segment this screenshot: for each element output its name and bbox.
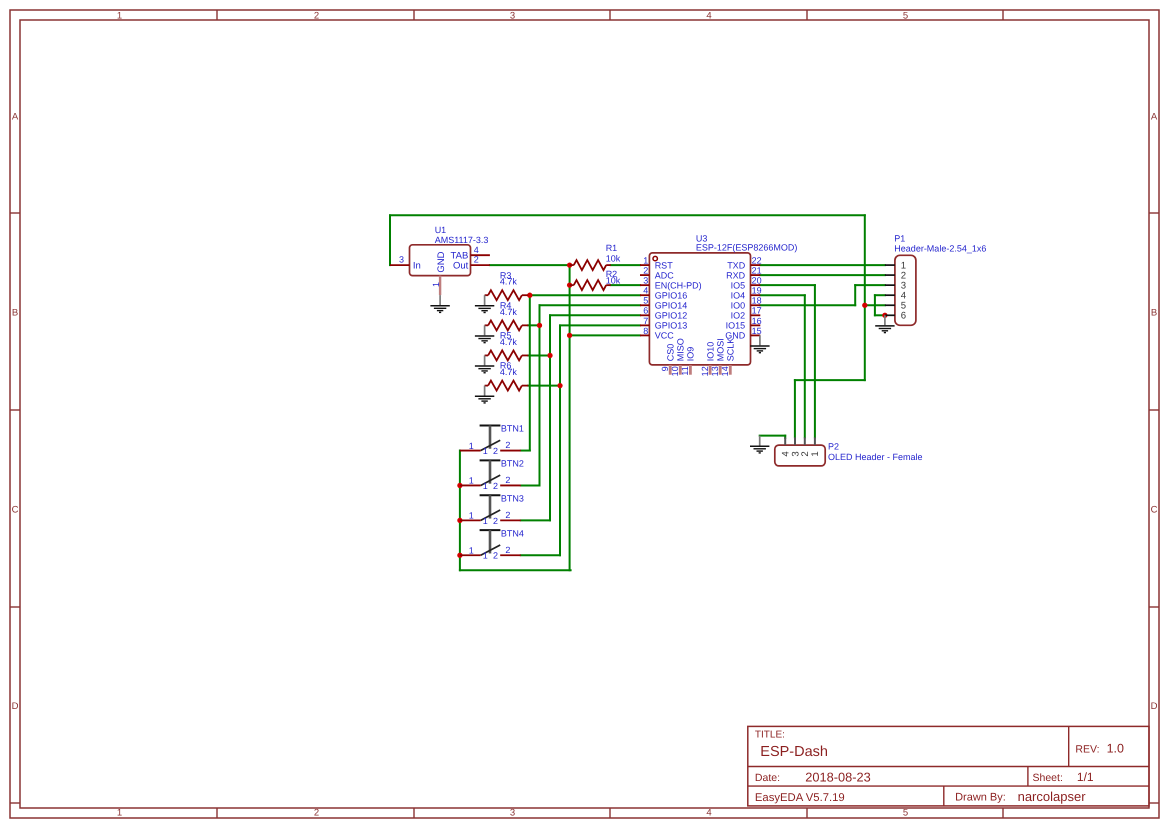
svg-text:2: 2 (493, 551, 498, 561)
svg-text:IO10: IO10 (705, 342, 715, 362)
svg-text:EN(CH-PD): EN(CH-PD) (655, 280, 702, 290)
svg-text:1: 1 (643, 256, 648, 266)
svg-text:10: 10 (670, 366, 680, 376)
svg-text:IO0: IO0 (731, 301, 746, 311)
svg-text:14: 14 (720, 366, 730, 376)
svg-text:BTN4: BTN4 (501, 528, 524, 538)
svg-text:2: 2 (493, 516, 498, 526)
svg-text:RXD: RXD (726, 270, 746, 280)
svg-text:D: D (12, 701, 19, 712)
svg-text:BTN2: BTN2 (501, 459, 524, 469)
svg-text:5: 5 (903, 808, 908, 819)
svg-text:GPIO16: GPIO16 (655, 291, 688, 301)
svg-text:1/1: 1/1 (1077, 770, 1094, 784)
svg-text:C: C (1151, 504, 1158, 515)
svg-text:1: 1 (469, 476, 474, 486)
svg-text:Out: Out (453, 260, 469, 271)
svg-text:REV:: REV: (1075, 744, 1099, 756)
svg-text:12: 12 (700, 366, 710, 376)
svg-text:2018-08-23: 2018-08-23 (805, 769, 870, 784)
svg-text:1: 1 (483, 551, 488, 561)
svg-text:4.7k: 4.7k (500, 277, 518, 287)
svg-text:1: 1 (469, 511, 474, 521)
svg-text:3: 3 (643, 276, 648, 286)
svg-text:OLED Header - Female: OLED Header - Female (828, 452, 923, 462)
svg-text:4.7k: 4.7k (500, 337, 518, 347)
svg-text:Header-Male-2.54_1x6: Header-Male-2.54_1x6 (894, 243, 986, 253)
svg-text:4: 4 (706, 10, 711, 21)
svg-text:1: 1 (469, 441, 474, 451)
svg-text:P2: P2 (828, 442, 839, 452)
svg-text:11: 11 (680, 366, 690, 375)
svg-text:6: 6 (643, 306, 648, 316)
svg-text:2: 2 (505, 545, 510, 555)
svg-text:4: 4 (706, 808, 711, 819)
svg-text:MOSI: MOSI (716, 338, 726, 361)
svg-text:18: 18 (752, 296, 762, 306)
svg-text:10k: 10k (606, 275, 621, 285)
svg-text:1: 1 (431, 282, 441, 287)
svg-text:2: 2 (493, 446, 498, 456)
svg-text:ADC: ADC (655, 270, 675, 280)
svg-text:2: 2 (493, 481, 498, 491)
svg-text:IO15: IO15 (726, 321, 746, 331)
svg-text:R1: R1 (606, 243, 618, 253)
svg-text:EasyEDA V5.7.19: EasyEDA V5.7.19 (755, 792, 845, 804)
svg-text:BTN1: BTN1 (501, 424, 524, 434)
svg-text:CS0: CS0 (666, 344, 676, 362)
svg-text:GND: GND (436, 251, 447, 272)
svg-text:21: 21 (752, 266, 762, 276)
svg-text:B: B (12, 307, 18, 318)
svg-text:1: 1 (483, 516, 488, 526)
svg-text:2: 2 (643, 266, 648, 276)
svg-text:GPIO14: GPIO14 (655, 301, 688, 311)
svg-text:A: A (12, 111, 19, 122)
svg-text:20: 20 (752, 276, 762, 286)
svg-text:A: A (1151, 111, 1158, 122)
svg-text:15: 15 (752, 326, 762, 336)
svg-text:RST: RST (655, 260, 674, 270)
svg-text:SCLK: SCLK (726, 338, 736, 362)
svg-text:16: 16 (752, 316, 762, 326)
svg-text:3: 3 (510, 808, 515, 819)
svg-text:4.7k: 4.7k (500, 307, 518, 317)
svg-text:D: D (1151, 701, 1158, 712)
svg-text:5: 5 (903, 10, 908, 21)
svg-text:IO5: IO5 (731, 280, 746, 290)
svg-text:1: 1 (469, 545, 474, 555)
svg-text:TXD: TXD (727, 260, 746, 270)
svg-text:1: 1 (117, 10, 122, 21)
svg-text:TITLE:: TITLE: (755, 730, 785, 741)
svg-text:2: 2 (505, 475, 510, 485)
svg-text:MISO: MISO (676, 338, 686, 361)
svg-text:Drawn By:: Drawn By: (955, 792, 1006, 804)
svg-text:In: In (413, 260, 421, 271)
svg-text:ESP-Dash: ESP-Dash (760, 744, 828, 760)
svg-text:22: 22 (752, 256, 762, 266)
svg-text:2: 2 (474, 255, 479, 265)
svg-text:2: 2 (505, 510, 510, 520)
svg-text:17: 17 (752, 306, 762, 316)
svg-text:4.7k: 4.7k (500, 367, 518, 377)
svg-text:1: 1 (117, 808, 122, 819)
svg-text:narcolapser: narcolapser (1018, 789, 1087, 804)
svg-text:IO4: IO4 (731, 291, 746, 301)
svg-text:6: 6 (901, 311, 906, 322)
svg-text:P1: P1 (894, 234, 905, 244)
svg-text:2: 2 (505, 440, 510, 450)
svg-text:3: 3 (510, 10, 515, 21)
svg-text:10k: 10k (606, 253, 621, 263)
svg-text:IO2: IO2 (731, 311, 746, 321)
svg-text:IO9: IO9 (686, 347, 696, 362)
svg-text:1: 1 (483, 481, 488, 491)
svg-text:7: 7 (643, 316, 648, 326)
svg-text:U1: U1 (435, 225, 447, 235)
svg-text:4: 4 (643, 286, 648, 296)
svg-text:Date:: Date: (755, 772, 780, 784)
svg-text:8: 8 (643, 326, 648, 336)
svg-text:9: 9 (660, 366, 670, 371)
svg-text:1: 1 (810, 451, 821, 456)
svg-text:1.0: 1.0 (1107, 742, 1124, 756)
svg-text:BTN3: BTN3 (501, 493, 524, 503)
svg-text:VCC: VCC (655, 331, 675, 341)
svg-text:1: 1 (483, 446, 488, 456)
svg-text:B: B (1151, 307, 1157, 318)
svg-text:5: 5 (643, 296, 648, 306)
svg-text:C: C (12, 504, 19, 515)
svg-text:GPIO12: GPIO12 (655, 311, 688, 321)
svg-text:2: 2 (314, 808, 319, 819)
svg-text:13: 13 (710, 366, 720, 376)
svg-text:AMS1117-3.3: AMS1117-3.3 (435, 235, 489, 245)
svg-text:19: 19 (752, 286, 762, 296)
svg-text:GPIO13: GPIO13 (655, 321, 688, 331)
svg-text:ESP-12F(ESP8266MOD): ESP-12F(ESP8266MOD) (696, 242, 798, 252)
svg-text:Sheet:: Sheet: (1033, 772, 1063, 784)
svg-text:3: 3 (399, 255, 404, 265)
svg-text:2: 2 (314, 10, 319, 21)
